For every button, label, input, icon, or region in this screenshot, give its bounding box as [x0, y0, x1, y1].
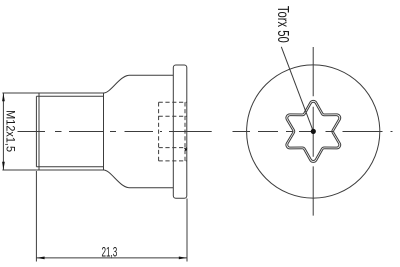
svg-text:21,3: 21,3	[101, 245, 117, 260]
svg-text:Torx 50: Torx 50	[275, 6, 293, 43]
svg-text:M12x1,5: M12x1,5	[3, 110, 16, 152]
